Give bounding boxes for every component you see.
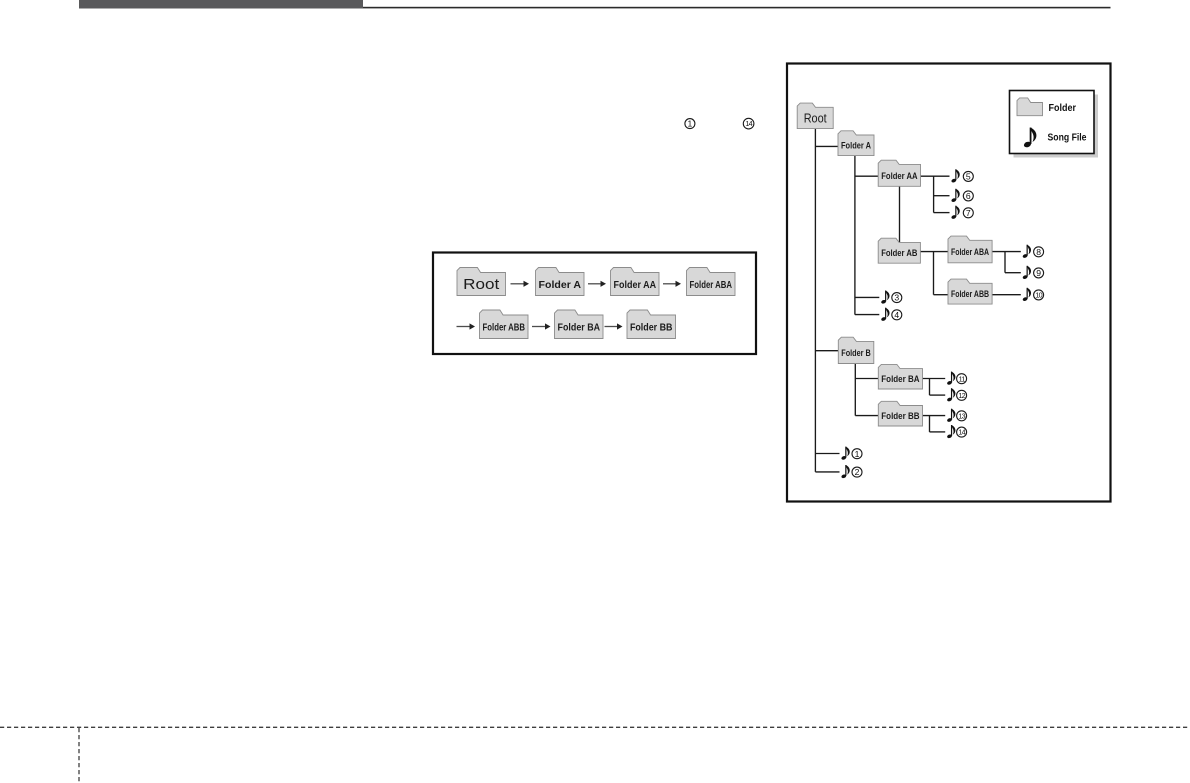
song file 14 note [947, 425, 956, 439]
wire branch to song 13 [923, 415, 946, 417]
folder A (flow) [536, 268, 585, 296]
song file 6 note [951, 189, 960, 203]
song file 3 number [892, 293, 902, 303]
tree diagram box [787, 64, 1111, 502]
song file 3 note [881, 291, 890, 305]
wire branch to song 7 [934, 212, 950, 214]
svg-text:Folder BA: Folder BA [881, 374, 919, 385]
wire Folder AB to Folder ABA [920, 251, 948, 253]
wire branch to song 14 [930, 431, 946, 433]
circled number 14 (text reference) [743, 118, 754, 129]
legend shadow [1014, 95, 1099, 158]
wire Folder A vertical [854, 156, 856, 315]
legend song-file note icon [1023, 128, 1036, 149]
folder A (tree) [838, 131, 874, 156]
folder ABB (flow) [480, 310, 529, 339]
song file 4 number [892, 310, 902, 320]
svg-text:13: 13 [958, 411, 965, 420]
wire Root trunk vertical [814, 129, 816, 472]
song file 13 note [947, 409, 956, 423]
svg-text:14: 14 [958, 428, 965, 437]
wire branch to song 12 [930, 394, 946, 396]
svg-text:Root: Root [804, 112, 827, 126]
svg-text:Folder AA: Folder AA [881, 171, 917, 182]
svg-text:3: 3 [894, 293, 899, 303]
song file 1 number [852, 449, 862, 459]
header dark bar [79, 0, 363, 9]
folder AA (tree) [878, 160, 920, 186]
svg-text:Root: Root [463, 277, 499, 293]
svg-text:9: 9 [1036, 268, 1041, 278]
legend box [1010, 91, 1095, 154]
song file 11 note [947, 372, 956, 386]
song file 5 number [963, 171, 973, 181]
svg-text:1: 1 [855, 449, 860, 459]
song file 4 note [881, 308, 890, 322]
svg-text:Folder BB: Folder BB [630, 322, 673, 334]
wire Folder BA songs vertical [929, 379, 931, 396]
song file 12 note [947, 388, 956, 402]
wire branch to song 9 [1005, 272, 1021, 274]
wire branch to song 1 [815, 453, 839, 455]
svg-text:7: 7 [966, 208, 971, 218]
song file 10 note [1022, 288, 1031, 302]
wire branch to song 8 [992, 251, 1021, 253]
arrow Folder BA to Folder BB [605, 323, 623, 329]
song file 7 note [951, 206, 960, 220]
wire Folder B vertical [854, 364, 856, 416]
folder Root (tree) [797, 103, 833, 129]
folder BA (flow) [555, 310, 604, 339]
wire Folder ABA songs vertical [1004, 252, 1006, 273]
wire branch to Folder BB [855, 415, 878, 417]
wire Folder AA to Folder AB vertical [899, 186, 901, 242]
wire branch to song 10 [992, 294, 1021, 296]
svg-text:Song File: Song File [1048, 132, 1087, 144]
svg-text:1: 1 [688, 119, 693, 129]
svg-text:Folder BA: Folder BA [558, 322, 601, 334]
song file 1 note [841, 447, 850, 461]
arrow to Folder ABB [457, 323, 476, 329]
song file 6 number [963, 191, 973, 201]
wire Folder BB songs vertical [929, 416, 931, 432]
folder BA (tree) [878, 364, 922, 389]
song file 7 number [963, 208, 973, 218]
song file 9 note [1022, 266, 1031, 280]
svg-text:Folder ABA: Folder ABA [690, 279, 733, 291]
song file 9 number [1034, 268, 1044, 278]
wire branch to Folder A [815, 145, 838, 147]
svg-text:5: 5 [966, 172, 971, 182]
wire songs 5-7 junction vertical [933, 176, 935, 212]
folder AA (flow) [611, 268, 660, 296]
folder Root (flow) [457, 268, 506, 296]
footer horizontal dashed rule [0, 726, 1190, 728]
wire branch to Folder B [815, 350, 838, 352]
arrow Folder A to Folder AA [588, 281, 606, 287]
svg-text:2: 2 [855, 467, 860, 477]
svg-text:12: 12 [958, 391, 965, 400]
song file 11 number [957, 374, 967, 384]
wire branch to song 2 [815, 471, 839, 473]
svg-text:Folder A: Folder A [539, 279, 582, 291]
song file 5 note [951, 169, 960, 183]
svg-text:Folder BB: Folder BB [881, 411, 919, 422]
wire branch to song 5 [921, 175, 950, 177]
header rule line [363, 7, 1111, 9]
wire branch to Folder AA [855, 175, 878, 177]
svg-text:11: 11 [959, 374, 966, 383]
svg-text:Folder B: Folder B [841, 348, 871, 359]
folder B (tree) [838, 337, 874, 363]
circled number 1 (text reference) [685, 119, 695, 129]
arrow Folder AA to Folder ABA [663, 281, 681, 287]
svg-text:10: 10 [1035, 291, 1042, 300]
svg-text:8: 8 [1036, 247, 1041, 257]
svg-text:14: 14 [745, 119, 752, 128]
svg-text:Folder A: Folder A [841, 141, 871, 152]
svg-text:Folder AB: Folder AB [881, 248, 917, 259]
svg-text:Folder ABA: Folder ABA [951, 247, 989, 258]
song file 12 number [957, 390, 967, 400]
arrow Folder ABB to Folder BA [532, 323, 551, 329]
wire branch to song 3 [855, 296, 879, 298]
svg-text:4: 4 [894, 310, 899, 320]
folder ABA (flow) [687, 268, 736, 296]
wire branch to Folder BA [855, 378, 878, 380]
folder BB (tree) [878, 401, 922, 426]
svg-text:Folder AA: Folder AA [614, 279, 657, 291]
wire branch to song 11 [923, 378, 946, 380]
wire branch to song 4 [855, 314, 879, 316]
song file 14 number [957, 427, 967, 437]
folder AB (tree) [878, 238, 920, 263]
wire Folder AB children vertical [933, 252, 935, 295]
flow diagram box [433, 253, 756, 355]
svg-text:Folder ABB: Folder ABB [951, 289, 989, 300]
wire branch to Folder ABB [934, 294, 949, 296]
folder ABB (tree) [948, 279, 992, 304]
legend folder icon [1017, 98, 1043, 116]
footer vertical dashed rule [78, 728, 80, 783]
song file 8 number [1034, 247, 1044, 257]
song file 10 number [1034, 290, 1044, 300]
wire branch to song 6 [934, 195, 950, 197]
song file 13 number [957, 411, 967, 421]
svg-text:6: 6 [966, 191, 971, 201]
song file 2 number [852, 467, 862, 477]
folder ABA (tree) [948, 236, 992, 263]
arrow Root to Folder A [511, 281, 530, 287]
song file 8 note [1022, 245, 1031, 259]
folder BB (flow) [627, 310, 676, 339]
svg-text:Folder ABB: Folder ABB [483, 322, 526, 334]
song file 2 note [841, 465, 850, 479]
svg-text:Folder: Folder [1049, 102, 1077, 114]
